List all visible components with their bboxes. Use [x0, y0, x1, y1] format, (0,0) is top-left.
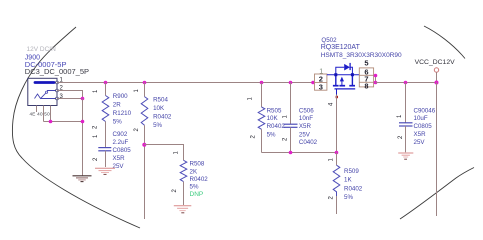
wire R509 top stub: [336, 153, 338, 166]
wire pins 5-8 tie: [374, 76, 376, 83]
resistor R900: [102, 96, 109, 122]
node R900 top junction: [104, 81, 108, 85]
svg-text:2: 2: [398, 135, 404, 139]
wire output rail: [376, 82, 437, 84]
svg-text:C0402: C0402: [299, 139, 318, 146]
svg-text:2R: 2R: [113, 102, 121, 109]
wire VCC long drop: [436, 83, 438, 217]
connector J900 mount stub C: [50, 106, 52, 122]
node pin4 bottom junction: [335, 151, 339, 155]
connector J900 pin3 circle: [56, 97, 59, 100]
svg-text:R504: R504: [153, 97, 168, 104]
resistor R505: [258, 107, 265, 129]
svg-text:X5R: X5R: [299, 123, 312, 130]
transistor Q502 right pin box: [359, 68, 373, 87]
node VCC junction: [435, 81, 439, 85]
svg-text:X5R: X5R: [414, 131, 427, 138]
svg-text:5%: 5%: [113, 119, 122, 126]
wire C90046 bottom stub: [405, 126, 407, 152]
transistor Q502 left pin box: [315, 74, 327, 90]
svg-text:DC3_DC_0007_5P: DC3_DC_0007_5P: [25, 67, 89, 76]
ground PGND red under C902: [95, 168, 115, 174]
svg-text:2: 2: [329, 196, 335, 200]
svg-text:5: 5: [364, 58, 368, 67]
node R504 top junction: [143, 81, 147, 85]
svg-text:10uF: 10uF: [414, 115, 428, 122]
svg-text:R900: R900: [113, 93, 128, 100]
wire R504 bottom long drop: [144, 125, 146, 219]
svg-text:1: 1: [93, 134, 99, 138]
svg-text:1: 1: [93, 89, 99, 93]
ground red under R508: [174, 206, 192, 213]
svg-text:C0805: C0805: [414, 123, 433, 130]
svg-text:2: 2: [283, 137, 289, 141]
wire ground drop: [82, 99, 84, 176]
connector J900 switch contact circle: [46, 91, 48, 93]
wire mount pins to ground drop: [44, 121, 83, 123]
svg-text:2K: 2K: [190, 168, 198, 175]
svg-text:VCC_DC12V: VCC_DC12V: [415, 59, 456, 66]
svg-text:Q502: Q502: [321, 37, 337, 44]
watermark arc top-right: [424, 26, 465, 59]
wire pin3 to junction: [57, 98, 82, 100]
wire C90046 top stub: [405, 83, 407, 123]
svg-text:10K: 10K: [153, 105, 165, 112]
node pin2-pin3 junction: [81, 97, 85, 101]
svg-text:5%: 5%: [267, 131, 276, 138]
wire R509 bottom drop: [336, 196, 338, 214]
svg-text:2: 2: [93, 157, 99, 161]
svg-text:10K: 10K: [267, 115, 279, 122]
svg-text:25V: 25V: [414, 139, 426, 146]
svg-text:3: 3: [319, 82, 323, 91]
node mount stub C junction: [49, 120, 53, 124]
svg-text:4: 4: [329, 102, 335, 106]
svg-text:DNP: DNP: [190, 191, 204, 198]
svg-text:X5R: X5R: [113, 155, 126, 162]
transistor Q502 drain dot: [334, 73, 337, 76]
svg-text:1: 1: [283, 115, 289, 119]
transistor Q502 body diode: [344, 64, 350, 71]
connector J900 switch symbol: [35, 91, 58, 99]
connector J900 mount stub A: [36, 106, 38, 113]
wire main 12V rail: [57, 82, 315, 84]
transistor Q502 source dot: [351, 73, 354, 76]
svg-text:R0402: R0402: [190, 176, 209, 183]
node pin8 junction: [374, 81, 378, 85]
ground red under C90046: [398, 153, 413, 159]
svg-text:1: 1: [174, 151, 180, 155]
svg-text:R0402: R0402: [267, 123, 286, 130]
resistor R508: [180, 160, 187, 181]
svg-text:C0805: C0805: [113, 147, 132, 154]
wire Q502 pin4 drop: [336, 95, 338, 153]
node R505 top junction: [260, 81, 264, 85]
svg-text:2: 2: [134, 128, 140, 132]
svg-text:10nF: 10nF: [299, 115, 313, 122]
svg-text:2: 2: [93, 125, 99, 129]
node R504-R508 junction: [142, 143, 146, 147]
transistor Q502 body arrow: [340, 77, 344, 82]
wire gate bottom rail: [262, 152, 337, 154]
transistor Q502 pin4 red dot: [336, 96, 338, 98]
wire R504 top stub: [144, 83, 146, 97]
watermark arc left: [12, 27, 140, 228]
svg-text:12V DCIN: 12V DCIN: [27, 46, 57, 53]
node ground drop junction: [81, 120, 85, 124]
wire pin2 to junction: [57, 91, 83, 99]
capacitor C902: [98, 148, 111, 151]
svg-text:C506: C506: [299, 107, 314, 114]
wire C506 top stub: [290, 83, 292, 125]
svg-text:2: 2: [172, 189, 178, 193]
watermark arc bottom-right: [400, 168, 474, 220]
svg-text:R1210: R1210: [113, 110, 132, 117]
node Q502 input junction: [311, 81, 315, 85]
capacitor C90046: [399, 123, 413, 126]
svg-text:2.2uF: 2.2uF: [113, 139, 129, 146]
capacitor C506: [284, 124, 298, 127]
svg-text:5%: 5%: [153, 122, 162, 129]
resistor R504: [141, 97, 148, 126]
connector J900 pin2 circle: [56, 89, 59, 92]
svg-text:5%: 5%: [190, 184, 199, 191]
svg-text:R508: R508: [190, 161, 205, 168]
wire R505 bottom stub: [261, 129, 263, 152]
connector J900 mount stub B: [43, 106, 45, 122]
node C90046 top junction: [404, 81, 408, 85]
svg-text:C902: C902: [113, 131, 128, 138]
node C506 top junction: [289, 81, 293, 85]
node pin7 junction: [374, 74, 378, 78]
svg-text:1: 1: [397, 114, 403, 118]
wire R505 top stub: [261, 83, 263, 108]
svg-text:HSMT8_3R30X3R30X0R90: HSMT8_3R30X3R30X0R90: [321, 52, 402, 59]
svg-text:25V: 25V: [299, 131, 311, 138]
wire junction to R508: [144, 145, 183, 161]
svg-text:1: 1: [248, 97, 254, 101]
connector J900 body: [28, 78, 57, 105]
svg-text:5%: 5%: [344, 194, 353, 201]
svg-text:1: 1: [134, 89, 140, 93]
connector J900 pin1 circle: [56, 81, 59, 84]
svg-text:R509: R509: [344, 168, 359, 175]
wire R900 top stub: [105, 83, 107, 96]
svg-text:C90046: C90046: [414, 107, 436, 114]
svg-text:2: 2: [251, 135, 257, 139]
wire VCC circle stub: [436, 72, 438, 82]
power port VCC_DC12V circle: [434, 68, 438, 72]
svg-text:4E 40 50: 4E 40 50: [30, 111, 51, 116]
wire C506 bottom stub: [290, 127, 292, 152]
svg-text:RQ3E120AT: RQ3E120AT: [321, 44, 361, 51]
svg-text:1K: 1K: [344, 177, 352, 184]
svg-text:R0402: R0402: [153, 114, 172, 121]
connector J900 center pin bar: [35, 81, 54, 84]
svg-text:R505: R505: [267, 107, 282, 114]
svg-text:8: 8: [364, 81, 368, 90]
ground GND chassis: [73, 176, 92, 182]
svg-text:1: 1: [329, 158, 335, 162]
wire R900 to C902: [105, 122, 107, 148]
wire C902 bottom stub: [105, 151, 107, 167]
node C506 bottom junction: [289, 151, 293, 155]
svg-text:R0402: R0402: [344, 185, 363, 192]
resistor R509: [333, 165, 340, 196]
wire R508 bottom stub: [183, 182, 185, 205]
transistor Q502 mosfet symbol: [327, 67, 359, 94]
